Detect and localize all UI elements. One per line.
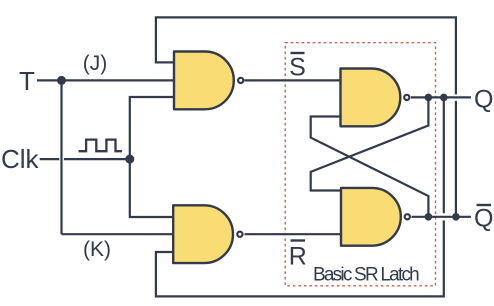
- overbar of S: [291, 52, 305, 54]
- junction dot T: [57, 76, 66, 85]
- wire T vertical down to K row: [60, 80, 62, 234]
- NAND gate U4 bubble: [405, 214, 410, 219]
- wire K line to gate U2: [62, 233, 174, 235]
- wire top feedback vertical B lower segment to Qbar dot: [455, 101, 457, 217]
- wire crosscouple Qbar to U3: [311, 117, 429, 217]
- svg-text:S: S: [289, 53, 306, 81]
- wire S-bar line U1 to U3: [245, 79, 341, 81]
- svg-text:R: R: [289, 243, 307, 271]
- wire Clk line left part: [40, 158, 60, 160]
- NAND gate U2 body: [173, 205, 233, 263]
- svg-text:(K): (K): [83, 238, 111, 261]
- wire Clk line right part: [64, 158, 130, 160]
- NAND gate U3 body: [341, 69, 401, 127]
- NAND gate U1 body: [174, 52, 234, 110]
- dashed box Basic SR Latch: [285, 43, 435, 286]
- NAND gate U1 bubble: [238, 78, 243, 83]
- svg-text:T: T: [19, 66, 35, 96]
- clock waveform symbol: [79, 140, 123, 152]
- svg-text:(J): (J): [83, 52, 108, 75]
- wire Q feedback lower segment to U2 bottom input: [156, 220, 444, 296]
- junction dot Q crosscouple: [425, 94, 433, 102]
- junction dot Qbar crosscouple: [425, 213, 433, 221]
- NAND gate U2 bubble: [237, 232, 242, 237]
- wire R-bar line U2 to U4: [245, 233, 342, 235]
- overbar of R: [291, 239, 306, 241]
- svg-text:Q: Q: [474, 205, 493, 233]
- wire Q output line: [411, 96, 471, 98]
- NAND gate U3 bubble: [404, 95, 409, 100]
- wire Q feedback upper segment: [443, 97, 445, 213]
- junction dot Clk: [125, 155, 134, 164]
- wire crosscouple Q to U4: [311, 97, 429, 190]
- wire Clk up to gate U1 input: [130, 97, 174, 159]
- wire T input line to gate U1: [37, 79, 174, 81]
- wire Qbar output line: [412, 216, 472, 218]
- svg-text:Clk: Clk: [1, 144, 40, 174]
- svg-text:Q: Q: [474, 85, 493, 113]
- wire top feedback from Qbar vertical B upper segment: [156, 17, 456, 94]
- svg-text:Basic SR Latch: Basic SR Latch: [313, 265, 419, 286]
- wire Clk down to gate U2 input: [130, 159, 173, 217]
- junction dot Q feedback: [440, 94, 448, 102]
- NAND gate U4 body: [341, 188, 401, 246]
- overbar of Q-bar: [477, 204, 492, 206]
- junction dot Qbar top feedback: [452, 213, 460, 221]
